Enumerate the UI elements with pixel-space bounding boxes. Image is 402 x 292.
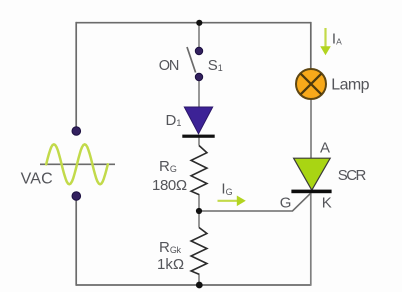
source VAC terminal upper: [72, 127, 81, 136]
node junction bottom: [196, 282, 203, 289]
svg-text:A: A: [320, 139, 330, 156]
diode D1 cathode bar: [182, 135, 214, 138]
wire bottom rail: [76, 284, 311, 286]
svg-text:1kΩ: 1kΩ: [157, 256, 184, 273]
wire SCR cathode to bottom rail: [310, 193, 312, 286]
svg-text:SCR: SCR: [338, 167, 367, 184]
svg-text:ON: ON: [159, 58, 179, 74]
lamp: [296, 69, 326, 99]
current arrow IA: [320, 28, 331, 55]
wire left rail lower: [75, 200, 77, 286]
wire left rail upper: [75, 22, 77, 127]
switch S1 terminal lower: [195, 73, 202, 80]
source VAC axis: [40, 163, 115, 165]
source VAC terminal lower: [72, 192, 81, 201]
wire switch to diode: [198, 81, 200, 108]
switch S1 terminal upper: [195, 47, 202, 54]
svg-text:VAC: VAC: [21, 170, 53, 187]
wire right rail upper: [310, 22, 312, 69]
node junction gate: [196, 208, 202, 214]
svg-text:Lamp: Lamp: [331, 76, 369, 93]
svg-text:G: G: [280, 194, 292, 211]
thyristor SCR: [294, 158, 331, 190]
svg-text:K: K: [322, 194, 332, 211]
wire top rail: [76, 22, 311, 24]
wire RG to gate node: [198, 194, 200, 228]
svg-text:180Ω: 180Ω: [152, 177, 187, 194]
thyristor SCR cathode bar: [291, 190, 331, 194]
wire switch branch stem: [198, 23, 200, 48]
switch S1 blade: [187, 47, 196, 73]
node junction top: [196, 20, 202, 26]
source VAC sine wave: [46, 144, 108, 184]
resistor RGk: [191, 228, 207, 275]
wire diode to RG: [198, 137, 200, 146]
diode D1: [184, 107, 212, 134]
wire RGk to bottom rail: [198, 274, 200, 286]
wire lamp to SCR: [310, 100, 312, 159]
current arrow IG: [218, 196, 246, 207]
wire gate lead: [199, 193, 311, 211]
resistor RG: [191, 146, 207, 195]
